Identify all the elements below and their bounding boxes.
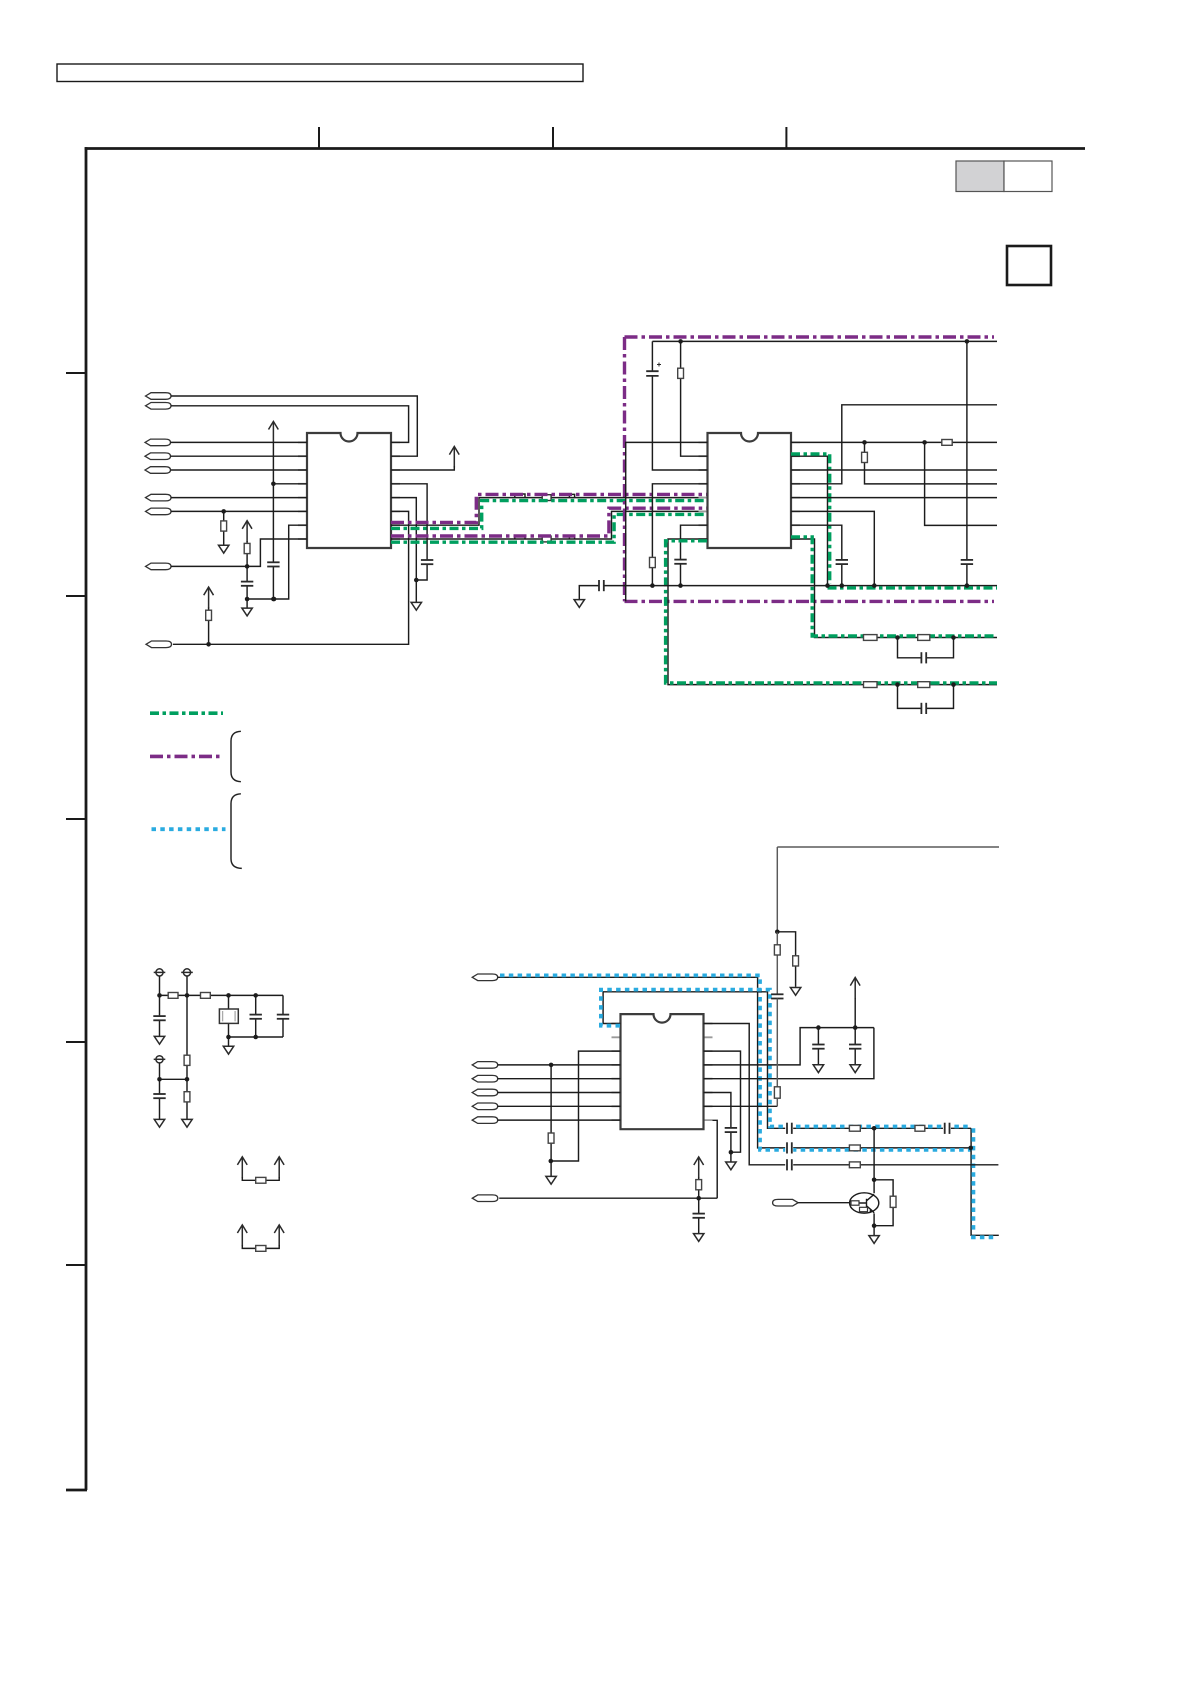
resistor R11 [918,635,930,641]
wire Q1 emitter to ground [873,1226,875,1236]
wire net merge down [971,1128,999,1235]
test point TP1 [154,969,166,976]
connector CN6 [146,494,172,501]
power arrow VCC1 [269,421,279,442]
wire X1 to ground [228,1037,230,1046]
node dot R22 bottom [549,1159,554,1164]
wire CN10 cyan net A [498,977,971,1148]
wire below C23 [776,999,778,1087]
wire top-right cap C8 drop [966,341,968,585]
resistor R25 [774,1087,780,1098]
wire TP2 down [186,976,188,995]
tick left 5 [66,1264,86,1266]
wire CN5 to U1 pin3L [171,469,308,471]
ground under C14 [154,1119,164,1127]
resistor R24 [776,932,778,995]
legend purple dash-dot line [150,755,223,759]
connector CN8 [146,563,172,570]
series cap C18 on line3 [785,1159,793,1170]
wire CN8 to node [171,565,247,567]
ground under R22 [546,1176,556,1184]
IC3 pin stubs right [704,1024,713,1121]
series cap C17 on line2 [785,1142,793,1153]
wire U1 pin5R down to ground [391,498,416,603]
power arrow VCC2 [242,521,252,542]
op-amp U1 body [307,433,391,548]
node dot C8 bus [965,583,970,588]
series capacitor C6 [599,580,604,591]
connector CN7 [146,508,172,515]
ground under X1 [223,1046,233,1054]
jumper hop on W2 [515,535,525,539]
capacitor C20 [817,1028,819,1065]
wire U1 pin7L loop to node [247,525,307,599]
node dots on 1027 rail [816,1025,821,1030]
wire U3 pin1R line3 [704,1024,999,1165]
tick top 3 [785,127,787,148]
cyan highlight net A [500,975,971,1150]
wire U2 pin4L to R7 [652,484,707,586]
series cap C15 on line1 [785,1123,793,1134]
wire U2 pin4R up and right [791,405,997,484]
wire lower rail [160,1078,188,1080]
node dot RC2 b [951,682,956,687]
resistor R9 drop from pin1R [865,442,998,484]
wire CN16 to pin8R drop [499,1197,717,1199]
resistor R3 [208,608,210,645]
legend green dash-dot line [150,711,223,715]
cyan highlight net B [601,990,971,1127]
resistor R1 [223,511,225,545]
node dot CN16 chain [696,1196,701,1201]
green highlight pin8L net [666,541,997,683]
wire CN6 to U1 pin5L [171,497,307,499]
resistor R4 on W1 [542,495,551,501]
purple net boundary left [623,337,626,601]
wire U1 pin4L to rail [273,483,307,485]
wire U1 pin8L to C8 node [247,539,307,566]
resistor R2 chain [246,541,248,566]
node dot top rail R6 [678,339,683,344]
crystal X1 [228,995,230,1037]
node dot R7 bus [650,583,655,588]
capacitor C21 [854,1028,856,1065]
node dot Q1 top [872,1178,877,1183]
resistor R20 on line2 [849,1145,860,1151]
wire U2 pin7R to C7 [791,525,842,585]
power arrow VCC4 [850,978,860,999]
node dot Q1 bottom [872,1223,877,1228]
node dot C19 [729,1150,734,1155]
op-amp U2 body [708,433,792,548]
capacitor C4 (polarized) branch to U2 pin3L [652,341,707,470]
wire U2 pin3R long [791,469,997,471]
green highlight on bus right part [828,586,998,589]
wire U3 pin5R [704,1028,874,1079]
green highlight pin8R [791,537,997,636]
wire U2 pin1L to purple rail [626,442,708,601]
wire R25 to pin7R wire [776,1098,778,1106]
resistor R7 [650,557,656,567]
connector CN13 [472,1089,498,1096]
test point TP2 [181,969,193,976]
tick left 3 [66,818,86,820]
capacitor C11 under TP1 [159,995,161,1036]
ground under C22 [694,1234,704,1242]
wire U2 pin8L green net down-left [668,539,997,685]
capacitor C19 [725,1128,737,1132]
resistor R23 [698,1177,700,1198]
small square box [1007,246,1051,285]
node dot pin1R a [862,440,867,445]
resistor R16 between rails [186,995,188,1079]
wire CN2 to U1 pin1R [171,406,409,443]
wire osc bottom rail [229,1036,284,1038]
resistor R13 [918,682,930,688]
connector CN3 [145,439,171,446]
series cap C16 on line1 [943,1123,951,1134]
wire VCC1 rail down [272,442,274,599]
wire U1 pin3R to arrow [391,466,454,470]
node dots osc bottom [226,1035,231,1040]
purple net boundary top [625,335,995,338]
connector CN2 [146,403,172,410]
connector CN16 [472,1195,498,1202]
connector CN9 [146,641,172,648]
tick top 2 [552,127,554,148]
capacitor C2 [246,566,248,608]
tick top 1 [318,127,320,148]
node dot pin2R bus [825,583,830,588]
node dot CN7/R1 [221,509,226,514]
wire CN4 to U1 pin2L [171,455,308,457]
node dot rail bottom [271,597,276,602]
tick left 1 [66,372,86,374]
wire CN13 to U3 pin6L [498,1092,621,1094]
wire U2 pin6R to bus [791,511,874,585]
title box [57,64,583,82]
green highlight W1 [391,501,707,529]
legend cyan dashed line [152,827,226,831]
node dot pin1R b [922,440,927,445]
wire top rail [652,340,997,342]
resistor R18 on line1 [849,1125,860,1131]
node dot top rail right [965,339,970,344]
connector CN11 [472,1062,498,1069]
border left line [85,147,88,1490]
IC2 pin stubs right [791,442,800,539]
wire U3 pin3L to R22 [551,1051,621,1161]
purple net boundary bottom [625,600,995,603]
IC1 pin stubs left [298,442,307,539]
capacitor C14 [159,1079,161,1119]
test point TP3 [154,1056,166,1063]
power arrow VCC3 [204,587,214,608]
cyan highlight merge down [971,1128,994,1237]
wire U3 pin8R down [713,1120,718,1198]
RC network on pin8L line: resistor R12 [864,682,878,688]
tick left 6 (bottom corner) [66,1489,87,1492]
wire Q1 collector net [873,1128,875,1225]
arrow ground under C20 [813,1065,823,1073]
IC3 pin stubs left [612,1024,621,1121]
ground below C2 [242,608,252,616]
resistor R19 on line1 [915,1125,925,1131]
ground under Q1 [869,1236,879,1244]
wire CN1 to U1 pin2R [171,396,417,456]
ground rail with series cap C6 [579,586,997,600]
node dot C7 bus [840,583,845,588]
connector CN14 [472,1103,498,1110]
ground below R1 [219,545,229,553]
capacitor C13 [282,995,284,1037]
transistor Q1 [850,1193,879,1213]
capacitor C22 [698,1198,700,1233]
wire CN11 to U3 pin4L [498,1064,621,1066]
wire osc top rail [160,994,284,996]
power arrow at U1 pin3R [449,447,459,468]
wire U3 pin3R loop [704,1051,741,1152]
IC1 pin stubs right [391,442,400,539]
node dot line1 Q1 [872,1126,877,1131]
jumper hop 2 on W1 [569,494,574,497]
resistor R17 [186,1079,188,1119]
wire U3 pin4R loop up [704,1028,874,1065]
connector CN17 (to Q1 base) [773,1199,799,1206]
node dot C2 bottom [245,597,250,602]
capacitor C23 inline [771,994,783,998]
green highlight pin2R [791,454,830,584]
resistor R14 inline [168,993,178,999]
node dot RC2 a [895,682,900,687]
resistor R22 [550,1065,552,1177]
resistor R5 on W2 [542,536,551,542]
node dot C5 bus [678,583,683,588]
op-amp U3 body [621,1014,704,1129]
wire W1 U1 pin7R to U2 pin5L [391,498,708,526]
purple highlight W1 [391,494,707,522]
branch to R26 ground [777,932,795,987]
resistor R21 on line3 [849,1162,860,1168]
purple highlight W2 [391,508,707,536]
connector CN4 [145,453,171,460]
legend bracket 1 [231,731,241,781]
node dot RC1 b [951,635,956,640]
wire U3 pin1L cyan net B [603,992,971,1129]
wire W2 U1 pin8R to U2 pin6L [391,511,708,539]
RC network on pin8R line: resistor R10 [864,635,878,641]
wire U2 pin8R green elbow down [791,539,997,638]
wire VCC4 to rail [854,998,856,1028]
capacitor C8 [961,560,973,564]
node dots osc rail [157,993,162,998]
tick left 4 [66,1041,86,1043]
capacitor C9 bridging R11 [898,638,954,658]
wire U3 pin6R to C19 [704,1093,731,1163]
wire CN17 to Q1 [798,1202,849,1204]
gray supply line top [777,847,999,932]
arrow ground under C21 [850,1065,860,1073]
wire CN7 to U1 pin6L [171,510,307,512]
node dot pin6R bus [872,583,877,588]
ground left of bus [574,600,584,608]
connector CN1 [146,393,172,400]
legend two-cell box top right [956,161,1004,192]
node dot 416/580 [414,578,419,583]
resistor R8 inline on pin1R wire [942,440,952,446]
wire U2 pin7L to C5 [681,525,708,585]
wire U3 pin7R [704,1105,778,1107]
wire CN14 to U3 pin7L [498,1105,621,1107]
capacitor C12 [255,995,257,1037]
node dot supply [775,930,780,935]
wire CN12 to U3 pin5L [498,1078,621,1080]
node dot rail/pin4L [271,482,276,487]
connector CN15 [472,1117,498,1124]
node dot net merge [968,1146,973,1151]
node dot RC1 a [895,635,900,640]
border top line [85,147,1085,150]
node dot CN8 [245,564,250,569]
wire U2 pin5R long [791,497,997,499]
wire CN15 to U3 pin8L [498,1119,621,1121]
wire TP1 down [159,976,161,995]
jumper link J2 [237,1225,247,1246]
wire U1 pin4R to C3 [391,484,427,580]
resistor R15 inline [201,993,211,999]
wire U1 pin6R long loop to CN9 [173,511,409,644]
resistor R27 beside Q1 [874,1180,893,1226]
IC2 pin stubs left [699,442,708,539]
ground under C11 [154,1036,164,1044]
wire U2 pin1R long [791,441,997,443]
ground under C19 [726,1162,736,1170]
connector CN12 [472,1075,498,1082]
resistor R6 branch to U2 pin2L [681,341,708,456]
node dot CN11/R22 [549,1063,554,1068]
wire TP3 down [159,1063,161,1079]
connector CN10 (cyan input) [472,974,498,981]
arrow ground under R26 [790,988,800,996]
node dot R3/CN9 [206,642,211,647]
wire drop from pin1R b [925,442,997,525]
capacitor C5 [674,560,686,564]
jumper link J1 [237,1157,247,1178]
node dot 274/599 [272,597,277,602]
node dots lower rail [157,1077,162,1082]
wire CN3 to U1 pin1L [171,441,308,443]
capacitor C1 on rail [267,562,279,566]
capacitor C10 bridging R13 [898,685,954,709]
jumper hop on W1 [515,494,525,498]
capacitor C7 [836,560,848,564]
jumper hop 2 on W2 [569,536,574,539]
wire U2 pin2R green to bus [791,456,828,585]
legend bracket 2 [231,794,242,869]
power arrow VCC5 [694,1157,704,1178]
resistor R26 [793,956,799,966]
ground under R17 [182,1119,192,1127]
ground below 416 [411,602,421,610]
tick left 2 [66,595,86,597]
green highlight W2 [391,514,707,542]
connector CN5 [145,467,171,474]
capacitor C3 [421,560,433,564]
